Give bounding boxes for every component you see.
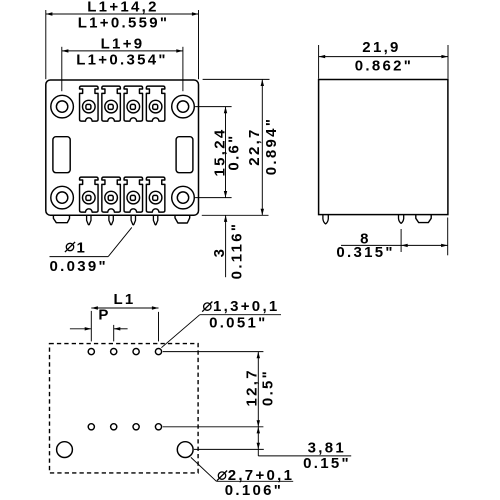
dim 15,24: dimension line: [225, 107, 227, 198]
svg-text:0.5": 0.5": [260, 369, 277, 406]
svg-text:3,81: 3,81: [308, 440, 346, 457]
dim 3: dimension line: [225, 215, 227, 277]
dim 21,9: dimension line: [319, 56, 448, 58]
dim P: right arrow line: [114, 328, 128, 330]
dim L1+9: left arrow: [62, 49, 69, 52]
svg-text:3: 3: [211, 247, 228, 258]
svg-text:L1+9: L1+9: [101, 36, 145, 53]
dim L1+9: left extension line: [61, 47, 63, 91]
dim 8: right arrow: [441, 244, 448, 247]
leader phi1: underline: [50, 256, 109, 258]
dim L1: right extension line: [158, 312, 160, 342]
symbol: diameter phi 1,3: [202, 302, 212, 312]
symbol: diameter phi 1: [65, 242, 75, 252]
dim 21,9: left extension line: [318, 45, 320, 79]
dim 3,81: top arrow: [257, 427, 260, 434]
dim L1+9: dimension line: [62, 50, 183, 52]
svg-text:L1+0.354": L1+0.354": [76, 52, 168, 69]
dim L1: left arrow: [91, 306, 98, 309]
drilling plan: right mounting hole (2.7mm): [177, 442, 193, 458]
dim L1+9: right arrow: [176, 49, 183, 52]
drilling plan: top row hole 2 (1.3mm): [111, 349, 117, 355]
symbol: diameter phi 2,7: [217, 471, 227, 481]
dim 22,7: bottom arrow: [261, 209, 264, 216]
svg-text:0.116": 0.116": [229, 222, 246, 280]
dim 12,7: top arrow: [257, 352, 260, 359]
front view: top row contact module 1: [80, 86, 99, 121]
dim 22,7: top arrow: [261, 79, 264, 86]
dim 8: dimension line: [341, 244, 448, 246]
front view: right mounting foot: [175, 215, 190, 223]
dim 12,7: bottom extension line: [163, 426, 264, 428]
front view: top row contact module 2: [102, 86, 121, 121]
dim 15,24: top arrow: [224, 107, 227, 114]
leader phi2,7: underline: [216, 480, 293, 482]
side view: solder pin right: [399, 215, 404, 224]
front view: top-left mounting hole: [51, 95, 74, 118]
side view: mounting foot: [416, 215, 431, 223]
leader phi1: diagonal to pin: [108, 227, 132, 256]
svg-text:22,7: 22,7: [246, 127, 263, 165]
svg-text:12,7: 12,7: [243, 368, 260, 406]
dim P: left arrow (outside): [85, 327, 92, 330]
drilling plan: left mounting hole (2.7mm): [57, 442, 73, 458]
dim P: right arrow (outside): [114, 327, 121, 330]
dim 21,9: right extension line: [447, 45, 449, 79]
svg-text:L1+14,2: L1+14,2: [87, 0, 159, 16]
dim L1+9: right extension line: [182, 47, 184, 91]
dim 21,9: left arrow: [319, 55, 326, 58]
dim 22,7: dimension line: [261, 79, 263, 215]
dim 22,7: bottom extension line: [202, 214, 269, 216]
dim 22,7: top extension line: [203, 78, 270, 80]
front view: right side slot: [176, 137, 193, 173]
dim P: right extension line: [113, 325, 115, 342]
front view: bottom row contact module 4: [146, 177, 165, 212]
svg-text:L1: L1: [113, 291, 135, 308]
dim 15,24: bottom extension line: [195, 197, 232, 199]
dim L1: dimension line: [91, 307, 158, 309]
front view: left side slot: [53, 137, 70, 173]
dim L1+14,2: left extension line: [45, 10, 47, 79]
drilling plan: bottom row hole 3 (1.3mm): [133, 424, 139, 430]
front view: solder pin 3: [131, 215, 135, 225]
dim 3,81: lower extension line (hole center): [194, 448, 264, 450]
dim 8: right extension line: [447, 218, 449, 256]
svg-text:1: 1: [77, 240, 88, 257]
drilling plan: bottom row hole 4 (1.3mm): [155, 424, 161, 430]
dim 12,7: top extension line: [163, 351, 264, 353]
front view: top-right mounting hole: [172, 95, 195, 118]
dim 15,24: bottom arrow: [224, 191, 227, 198]
svg-text:1,3+0,1: 1,3+0,1: [213, 298, 280, 315]
dim 3: up arrow: [224, 215, 227, 222]
dim 3,81: dimension line + leader down: [257, 427, 259, 456]
front view: left mounting foot: [53, 215, 69, 223]
dim 3,81: text underline: [258, 455, 351, 457]
front view: connector body: [46, 80, 199, 215]
drilling plan: bottom row hole 1 (1.3mm): [88, 424, 94, 430]
svg-text:0.051": 0.051": [209, 315, 267, 332]
front view: solder pin 2: [109, 215, 113, 225]
side view: connector body outline: [319, 80, 448, 215]
dim L1+14,2: right arrow: [192, 12, 199, 15]
dim 3,81: bottom arrow: [257, 443, 260, 450]
front view: top row contact module 4: [146, 86, 165, 121]
dim L1: left extension line: [90, 311, 92, 342]
drilling plan: PCB outline (dashed): [50, 344, 199, 473]
leader phi1,3: diagonal from hole: [161, 315, 199, 348]
drilling plan: top row hole 3 (1.3mm): [133, 349, 139, 355]
front view: bottom row contact module 1: [80, 177, 99, 212]
svg-text:L1+0.559": L1+0.559": [78, 14, 170, 31]
leader phi1,3: underline: [200, 314, 281, 316]
svg-text:21,9: 21,9: [362, 39, 400, 56]
front view: bottom-left mounting hole: [51, 186, 74, 209]
front view: bottom-right mounting hole: [172, 186, 195, 209]
dim 8: left extension line: [400, 229, 402, 252]
front view: bottom row contact module 3: [124, 177, 143, 212]
dim L1+14,2: right extension line: [198, 10, 200, 79]
drilling plan: top row hole 1 (1.3mm): [88, 349, 94, 355]
dim L1+14,2: left arrow: [46, 12, 53, 15]
front view: bottom row contact module 2: [102, 177, 121, 212]
svg-text:0.862": 0.862": [355, 57, 413, 74]
svg-text:0.15": 0.15": [303, 455, 351, 472]
drilling plan: bottom row hole 2 (1.3mm): [111, 424, 117, 430]
front view: solder pin 4: [153, 215, 157, 225]
dim 21,9: right arrow: [441, 55, 448, 58]
front view: solder pin 1: [87, 215, 91, 225]
drilling plan: top row hole 4 (1.3mm): [155, 349, 161, 355]
svg-text:0.6": 0.6": [226, 133, 243, 170]
dim 8: left arrow: [401, 244, 408, 247]
dim P: left arrow line: [70, 328, 91, 330]
side view: solder pin left: [323, 215, 328, 224]
dim L1+14,2: dimension line: [46, 13, 199, 15]
dim 12,7: dimension line: [257, 352, 259, 427]
svg-text:0.315": 0.315": [336, 244, 394, 261]
svg-text:0.039": 0.039": [49, 258, 107, 275]
dim L1: right arrow: [152, 306, 159, 309]
dim 12,7: bottom arrow: [257, 420, 260, 427]
front view: top row contact module 3: [124, 86, 143, 121]
svg-text:0.106": 0.106": [225, 482, 283, 499]
svg-text:P: P: [98, 307, 110, 324]
svg-text:0.894": 0.894": [263, 117, 280, 175]
leader phi2,7: diagonal from hole: [191, 457, 217, 481]
dim 15,24: top extension line: [195, 106, 232, 108]
